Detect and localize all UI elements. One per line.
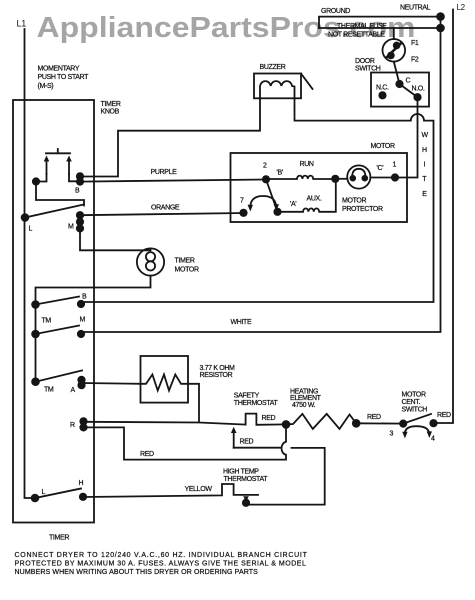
motor protector <box>335 178 347 180</box>
buzzer box <box>254 74 301 99</box>
wire resistor right down to contact R <box>188 384 199 422</box>
svg-text:B: B <box>75 188 80 195</box>
resistor zigzag <box>141 375 189 391</box>
wire M-S contact down to L arm <box>36 182 84 206</box>
svg-text:RED: RED <box>140 451 154 458</box>
svg-text:L: L <box>29 226 33 233</box>
wire buzzer left to timer contact B <box>80 98 260 176</box>
cent switch arc with arrows <box>405 426 429 433</box>
svg-text:'B': 'B' <box>277 170 283 177</box>
arm TM1 to B2 <box>36 297 80 305</box>
svg-text:SWITCH: SWITCH <box>402 407 428 414</box>
arm TM2 to M2 <box>36 326 80 335</box>
svg-text:PUSH TO START: PUSH TO START <box>38 74 90 81</box>
svg-text:'C': 'C' <box>377 165 384 172</box>
wire buzzer right to timer contact B2 (with hop over motor wire) <box>81 98 434 304</box>
svg-text:NUMBERS WHEN WRITING ABOUT THI: NUMBERS WHEN WRITING ABOUT THIS DRYER OR… <box>15 569 259 576</box>
node M-S left contact <box>33 178 39 184</box>
svg-text:MOTOR: MOTOR <box>342 198 366 205</box>
svg-text:THERMAL FUSE: THERMAL FUSE <box>337 23 387 30</box>
ground rail <box>319 17 441 28</box>
push-to-start right arrow <box>68 159 70 174</box>
node neutral junction 1 <box>437 13 444 20</box>
wire door switch N.O. down to motor terminal 1 <box>395 97 418 177</box>
wire L2 bus down to cent switch <box>436 10 453 424</box>
svg-text:TIMER: TIMER <box>49 535 69 542</box>
svg-text:CONNECT DRYER TO 120/240 V.A.C: CONNECT DRYER TO 120/240 V.A.C.,60 HZ. I… <box>15 552 308 559</box>
svg-text:I: I <box>424 162 426 169</box>
svg-text:M: M <box>68 224 74 231</box>
svg-text:DOOR: DOOR <box>355 58 375 65</box>
motor switch arm 2 to A <box>266 179 278 212</box>
svg-text:4750 W.: 4750 W. <box>292 402 316 409</box>
svg-text:MOTOR: MOTOR <box>371 143 395 150</box>
svg-text:RUN: RUN <box>300 161 314 168</box>
node TM pivot 3 <box>32 378 39 385</box>
node timer contact H <box>80 494 86 500</box>
svg-text:N.C.: N.C. <box>376 85 389 92</box>
node timer contact L <box>22 214 29 221</box>
buzzer striker <box>301 74 313 90</box>
svg-text:3.77 K OHM: 3.77 K OHM <box>200 365 236 372</box>
wire purple: timer B to motor terminal 2 <box>80 180 266 182</box>
motor cent arc 7-A with arrows <box>250 196 276 208</box>
wire right arrow elbow to contact B <box>69 174 78 181</box>
node neutral junction 2 <box>437 25 444 32</box>
svg-text:T: T <box>422 176 427 183</box>
node timer contact B (upper pair) <box>77 173 83 179</box>
wire A to resistor <box>82 382 141 385</box>
svg-text:F1: F1 <box>411 40 419 47</box>
svg-text:(M-S): (M-S) <box>38 83 54 90</box>
arm TM3 to A <box>36 371 83 382</box>
svg-text:CENT.: CENT. <box>402 399 421 406</box>
node motor terminal 1 <box>392 174 398 180</box>
buzzer coil <box>260 81 295 98</box>
svg-text:GROUND: GROUND <box>321 8 350 15</box>
svg-text:RED: RED <box>262 415 276 422</box>
wire red: R to safety thermostat <box>84 422 246 425</box>
wire L1 bus <box>25 29 36 498</box>
cent switch arm <box>403 414 431 424</box>
svg-text:4: 4 <box>431 436 435 443</box>
thermal fuse rail <box>319 27 441 29</box>
svg-text:ORANGE: ORANGE <box>151 205 180 212</box>
wire neutral bus down to WHITE wire <box>81 17 441 334</box>
svg-text:RED: RED <box>240 439 254 446</box>
node heating element right junction <box>353 420 360 427</box>
svg-text:YELLOW: YELLOW <box>185 486 213 493</box>
svg-text:L1: L1 <box>17 18 27 28</box>
svg-text:7: 7 <box>240 198 244 205</box>
svg-text:L: L <box>42 489 46 496</box>
svg-text:KNOB: KNOB <box>101 109 120 116</box>
svg-text:N.O.: N.O. <box>412 86 425 93</box>
svg-text:HIGH TEMP: HIGH TEMP <box>223 469 259 476</box>
svg-text:AUX.: AUX. <box>307 196 322 203</box>
svg-text:BUZZER: BUZZER <box>260 64 286 71</box>
svg-text:MOTOR: MOTOR <box>402 392 426 399</box>
motor aux winding wire + coil <box>278 179 336 212</box>
node motor terminal A <box>274 209 280 215</box>
svg-text:H: H <box>79 480 84 487</box>
svg-text:MOTOR: MOTOR <box>175 267 199 274</box>
motor run winding wire + coil <box>266 176 335 179</box>
safety thermostat bump <box>246 414 286 425</box>
svg-text:R: R <box>70 422 75 429</box>
node motor terminal 7 <box>240 210 246 216</box>
node TM pivot 1 <box>32 301 39 308</box>
svg-text:M: M <box>80 317 86 324</box>
wire fuse to door switch common <box>394 62 400 84</box>
svg-text:WHITE: WHITE <box>231 319 252 326</box>
timer switch arm L <box>25 205 84 218</box>
svg-text:PROTECTED BY MAXIMUM 30 A. FUS: PROTECTED BY MAXIMUM 30 A. FUSES. ALWAYS… <box>15 561 306 568</box>
wire red to cent switch 3 <box>356 422 403 424</box>
heating element zigzag <box>286 414 356 429</box>
svg-text:E: E <box>422 191 427 198</box>
svg-text:'A': 'A' <box>290 201 296 208</box>
arm L to H (bottom) <box>35 489 81 499</box>
svg-text:1: 1 <box>393 162 397 169</box>
svg-text:H: H <box>422 147 427 154</box>
svg-text:RESISTOR: RESISTOR <box>200 372 233 379</box>
node motor terminal 2 <box>263 176 269 182</box>
node timer contact L (bottom) <box>32 495 39 502</box>
timer box <box>13 100 94 523</box>
svg-text:F2: F2 <box>411 57 419 64</box>
svg-text:TM: TM <box>42 318 52 325</box>
svg-text:SAFETY: SAFETY <box>234 393 260 400</box>
node high temp contact <box>243 500 249 506</box>
door switch box <box>371 73 429 107</box>
high temp thermostat arrow <box>243 496 249 501</box>
resistor box <box>141 356 189 403</box>
door switch arm C to N.O. <box>400 84 418 97</box>
node cent switch 3 <box>400 420 406 426</box>
high temp thermostat bump <box>83 484 258 497</box>
node door switch N.C. <box>379 92 385 98</box>
svg-text:ELEMENT: ELEMENT <box>290 395 322 402</box>
node cent switch 4 <box>430 420 436 426</box>
svg-text:L2: L2 <box>457 3 466 12</box>
node timer contact B2 <box>78 301 84 307</box>
wire orange: timer M to motor terminal 7 <box>80 213 244 215</box>
node timer contacts M (three) <box>77 212 83 218</box>
timer motor circles <box>137 248 164 275</box>
node TM pivot 2 <box>32 331 39 338</box>
svg-text:A: A <box>71 387 76 394</box>
svg-text:RED: RED <box>367 414 381 421</box>
svg-text:NEUTRAL: NEUTRAL <box>400 5 431 12</box>
node timer contact M2 <box>78 331 84 337</box>
svg-text:TIMER: TIMER <box>175 258 195 265</box>
svg-text:THERMOSTAT: THERMOSTAT <box>224 476 269 483</box>
motor box <box>231 153 408 222</box>
wire high temp contact right <box>246 504 248 506</box>
svg-text:TM: TM <box>44 387 54 394</box>
push-to-start left arrow <box>46 159 48 174</box>
safety thermostat arm arrow <box>233 433 235 448</box>
wire left arrow elbow to contact <box>36 174 47 182</box>
momentary push-to-start button bar <box>46 149 70 153</box>
node timer contacts A <box>78 377 84 383</box>
svg-text:2: 2 <box>263 163 267 170</box>
wire safety arm to high-temp circuit <box>234 448 325 505</box>
svg-text:MOMENTARY: MOMENTARY <box>38 66 80 73</box>
svg-text:PURPLE: PURPLE <box>151 169 178 176</box>
watermark <box>37 12 416 44</box>
node heating element left junction <box>283 421 290 428</box>
svg-text:B: B <box>82 294 87 301</box>
wire timer motor to TM pivot bus <box>36 276 151 382</box>
svg-text:3: 3 <box>390 431 394 438</box>
wire red: heating junction down to R red wire (hop) <box>84 424 287 459</box>
node timer contacts R <box>80 418 86 424</box>
svg-text:C: C <box>406 78 411 85</box>
svg-text:TIMER: TIMER <box>101 101 121 108</box>
svg-text:RED: RED <box>437 412 451 419</box>
wire timer M down to timer motor <box>80 228 151 250</box>
node door switch C <box>396 81 402 87</box>
thermal fuse F1-F2 <box>393 28 395 39</box>
node door switch N.O. <box>414 94 420 100</box>
svg-text:W: W <box>422 132 429 139</box>
svg-text:PROTECTOR: PROTECTOR <box>342 206 383 213</box>
node motor junction B-AUX <box>332 176 338 182</box>
svg-text:THERMOSTAT: THERMOSTAT <box>234 400 279 407</box>
svg-text:NOT RESETTABLE: NOT RESETTABLE <box>328 32 385 39</box>
svg-text:SWITCH: SWITCH <box>355 66 381 73</box>
